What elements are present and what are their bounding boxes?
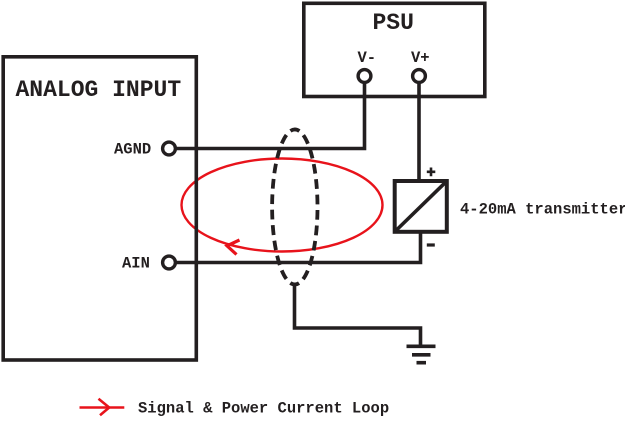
wire V+ to transmitter + [417,84,421,181]
terminal V- [358,70,371,83]
red current loop ellipse [182,159,383,252]
wire AGND to V- [169,84,365,149]
transmitter diagonal [397,183,446,230]
terminal AGND [163,142,176,155]
red loop arrowhead [227,240,240,255]
terminal V+ [413,70,426,83]
legend arrow [80,406,125,409]
box ANALOG INPUT [3,57,196,360]
svg-text:AGND: AGND [114,141,151,159]
label - [427,243,435,246]
svg-text:ANALOG INPUT: ANALOG INPUT [16,77,182,103]
terminal AIN [163,256,176,269]
svg-text:4-20mA transmitter: 4-20mA transmitter [460,201,625,219]
ground symbol [407,344,436,348]
svg-text:V+: V+ [411,49,430,67]
svg-text:V-: V- [358,49,377,67]
svg-text:AIN: AIN [122,255,150,273]
label + [427,168,436,177]
box PSU [304,3,485,96]
wire shield drain to ground [295,283,421,346]
wire AIN to transmitter - [169,232,421,263]
svg-text:PSU: PSU [373,10,414,36]
cable shield dashed ellipse [272,129,317,284]
svg-text:Signal & Power Current Loop: Signal & Power Current Loop [138,400,389,418]
transmitter U1 box [395,181,447,232]
